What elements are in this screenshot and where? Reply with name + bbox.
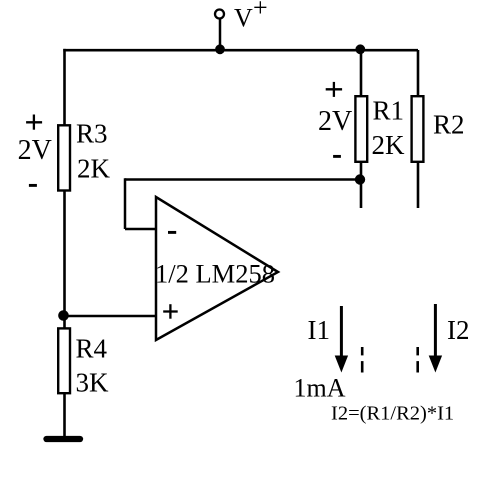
dashed divider right: [416, 347, 419, 373]
svg-text:1mA: 1mA: [294, 374, 346, 403]
node junction dot at R3/R4: [58, 310, 69, 321]
resistor R2 body: [412, 96, 424, 162]
node junction dot at R1 top: [355, 44, 365, 54]
V+ terminal circle: [215, 10, 224, 19]
label R3 plus: [26, 115, 42, 130]
svg-text:R2: R2: [433, 110, 465, 140]
wire R2 vertical branch: [417, 50, 420, 208]
op-amp noninverting input plus: [163, 304, 178, 319]
label R1 minus: [333, 155, 341, 158]
wire V+ terminal lead: [219, 16, 222, 51]
wire feedback vertical drop: [124, 178, 127, 229]
current arrow I2: [434, 304, 437, 358]
wire left vertical branch: [63, 49, 66, 437]
resistor R4 body: [58, 328, 70, 393]
svg-text:I2: I2: [447, 315, 470, 345]
node junction dot under terminal: [215, 44, 225, 54]
current arrow I1: [340, 306, 343, 358]
ground: [47, 436, 81, 442]
svg-text:+: +: [253, 0, 268, 22]
wire inverting input stub: [125, 228, 156, 231]
op-amp U1 triangle: [156, 197, 278, 340]
resistor R3 body: [58, 125, 70, 190]
svg-text:2K: 2K: [77, 154, 111, 184]
svg-text:R3: R3: [76, 119, 108, 149]
wire top horizontal V+ rail: [63, 49, 418, 52]
svg-text:I1: I1: [308, 315, 331, 345]
wire feedback horizontal to inverting input: [125, 178, 361, 181]
dashed divider left: [361, 347, 364, 373]
svg-text:2V: 2V: [18, 135, 52, 166]
svg-text:I2=(R1/R2)*I1: I2=(R1/R2)*I1: [331, 403, 454, 425]
svg-text:V: V: [234, 4, 253, 33]
svg-text:1/2 LM258: 1/2 LM258: [155, 259, 275, 289]
svg-text:2K: 2K: [372, 130, 406, 160]
svg-text:3K: 3K: [76, 368, 110, 398]
node junction dot at R1 bottom / feedback: [355, 174, 365, 184]
label R3 minus: [29, 184, 37, 187]
svg-text:R4: R4: [76, 334, 108, 364]
svg-text:2V: 2V: [318, 106, 352, 137]
wire noninverting input: [64, 315, 156, 318]
resistor R1 body: [355, 96, 367, 162]
op-amp inverting input minus: [168, 231, 176, 234]
wire R1 vertical branch: [360, 50, 363, 208]
svg-text:R1: R1: [373, 96, 405, 126]
label R1 plus: [326, 82, 342, 97]
